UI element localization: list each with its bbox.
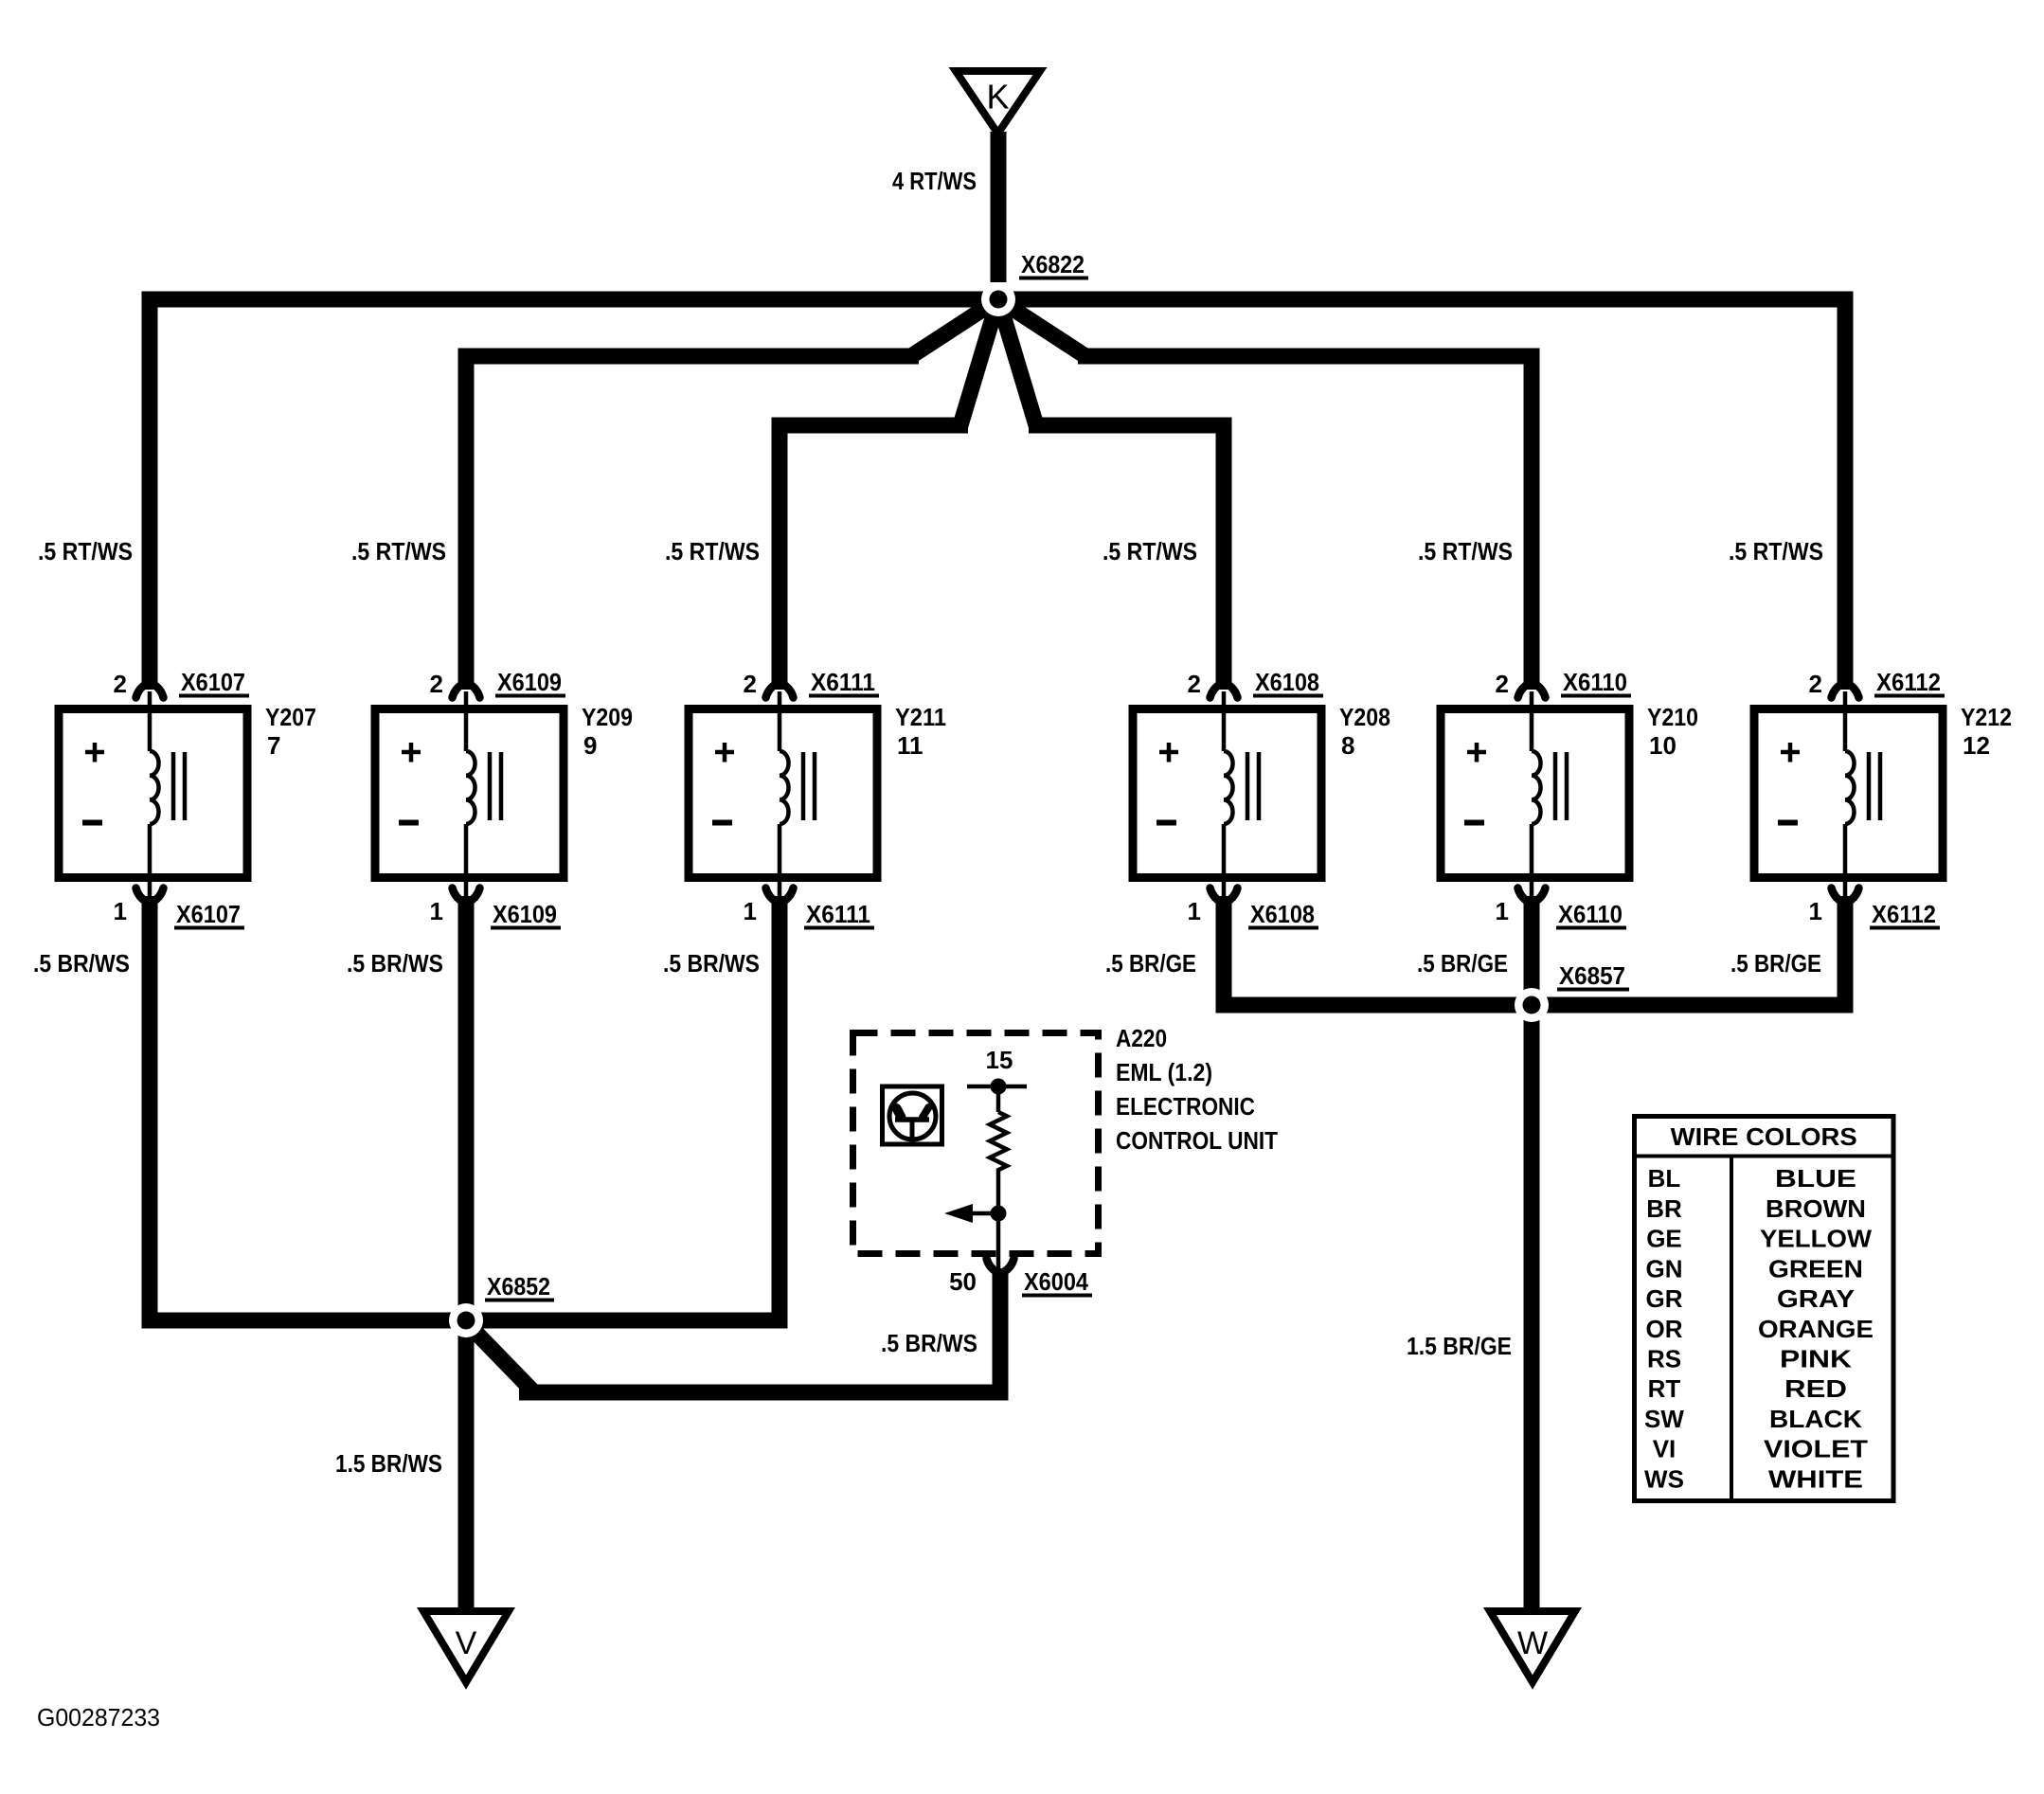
svg-text:Y208: Y208 — [1339, 703, 1390, 731]
svg-text:WS: WS — [1644, 1464, 1684, 1493]
svg-text:X6822: X6822 — [1021, 250, 1085, 278]
svg-text:VI: VI — [1653, 1435, 1676, 1463]
svg-text:.5 BR/GE: .5 BR/GE — [1417, 949, 1508, 978]
svg-text:X6107: X6107 — [176, 900, 241, 928]
svg-text:K: K — [986, 78, 1009, 117]
svg-text:WIRE COLORS: WIRE COLORS — [1671, 1122, 1857, 1151]
svg-text:GN: GN — [1646, 1254, 1683, 1283]
svg-text:X6857: X6857 — [1559, 961, 1625, 990]
svg-text:Y212: Y212 — [1961, 703, 2012, 731]
svg-text:RED: RED — [1784, 1374, 1847, 1403]
svg-text:.5 RT/WS: .5 RT/WS — [351, 537, 446, 565]
svg-text:A220: A220 — [1116, 1024, 1167, 1052]
svg-text:X6108: X6108 — [1255, 668, 1319, 696]
svg-text:X6111: X6111 — [806, 900, 870, 928]
svg-text:Y207: Y207 — [265, 703, 316, 731]
svg-text:W: W — [1517, 1625, 1548, 1661]
svg-text:BLACK: BLACK — [1769, 1405, 1862, 1433]
svg-text:X6004: X6004 — [1024, 1267, 1088, 1296]
svg-text:2: 2 — [1809, 670, 1822, 698]
svg-text:.5 BR/GE: .5 BR/GE — [1730, 949, 1821, 978]
svg-text:GE: GE — [1646, 1225, 1682, 1253]
svg-text:10: 10 — [1649, 731, 1676, 760]
svg-text:11: 11 — [897, 731, 923, 760]
svg-text:YELLOW: YELLOW — [1760, 1225, 1872, 1253]
svg-text:X6109: X6109 — [497, 668, 562, 696]
svg-text:1: 1 — [114, 897, 127, 925]
svg-text:1: 1 — [1496, 897, 1509, 925]
svg-text:Y210: Y210 — [1647, 703, 1698, 731]
svg-text:X6112: X6112 — [1876, 668, 1941, 696]
svg-text:X6110: X6110 — [1563, 668, 1627, 696]
svg-text:RT: RT — [1648, 1374, 1681, 1403]
svg-text:X6852: X6852 — [487, 1272, 550, 1301]
svg-text:X6110: X6110 — [1558, 900, 1623, 928]
svg-text:EML (1.2): EML (1.2) — [1116, 1058, 1212, 1086]
svg-text:.5 RT/WS: .5 RT/WS — [1103, 537, 1197, 565]
svg-text:.5 BR/WS: .5 BR/WS — [663, 949, 760, 978]
svg-text:1: 1 — [1188, 897, 1201, 925]
svg-text:RS: RS — [1647, 1345, 1681, 1373]
svg-text:2: 2 — [1496, 670, 1509, 698]
svg-text:X6108: X6108 — [1250, 900, 1315, 928]
svg-text:1: 1 — [1809, 897, 1822, 925]
svg-text:BROWN: BROWN — [1766, 1194, 1866, 1223]
svg-text:50: 50 — [949, 1267, 977, 1296]
svg-text:.5 BR/WS: .5 BR/WS — [881, 1329, 977, 1357]
svg-text:ELECTRONIC: ELECTRONIC — [1116, 1092, 1255, 1121]
svg-text:1: 1 — [430, 897, 443, 925]
svg-text:1: 1 — [744, 897, 757, 925]
svg-text:7: 7 — [267, 731, 280, 760]
svg-text:BL: BL — [1648, 1164, 1681, 1193]
svg-text:OR: OR — [1646, 1315, 1683, 1343]
svg-text:X6109: X6109 — [493, 900, 557, 928]
svg-text:2: 2 — [744, 670, 757, 698]
svg-text:G00287233: G00287233 — [37, 1703, 160, 1731]
svg-text:.5 RT/WS: .5 RT/WS — [38, 537, 133, 565]
svg-text:GREEN: GREEN — [1768, 1254, 1863, 1283]
svg-text:12: 12 — [1963, 731, 1990, 760]
svg-text:1.5 BR/GE: 1.5 BR/GE — [1407, 1332, 1512, 1360]
svg-text:BR: BR — [1646, 1194, 1682, 1223]
svg-text:X6107: X6107 — [181, 668, 245, 696]
svg-text:15: 15 — [986, 1046, 1013, 1074]
svg-text:GR: GR — [1646, 1284, 1683, 1313]
svg-text:CONTROL UNIT: CONTROL UNIT — [1116, 1126, 1278, 1155]
svg-text:Y211: Y211 — [895, 703, 946, 731]
svg-text:PINK: PINK — [1780, 1345, 1852, 1373]
svg-text:Y209: Y209 — [582, 703, 633, 731]
svg-text:2: 2 — [1188, 670, 1201, 698]
svg-text:.5 BR/WS: .5 BR/WS — [347, 949, 443, 978]
svg-text:BLUE: BLUE — [1775, 1164, 1856, 1193]
svg-text:GRAY: GRAY — [1777, 1284, 1855, 1313]
svg-text:WHITE: WHITE — [1768, 1464, 1863, 1493]
svg-text:.5 RT/WS: .5 RT/WS — [1729, 537, 1823, 565]
svg-text:2: 2 — [430, 670, 443, 698]
svg-text:4 RT/WS: 4 RT/WS — [892, 167, 977, 195]
svg-text:8: 8 — [1341, 731, 1354, 760]
svg-text:9: 9 — [583, 731, 597, 760]
svg-text:.5 BR/GE: .5 BR/GE — [1105, 949, 1196, 978]
svg-text:.5 RT/WS: .5 RT/WS — [1418, 537, 1513, 565]
svg-text:X6112: X6112 — [1872, 900, 1936, 928]
svg-text:.5 RT/WS: .5 RT/WS — [665, 537, 760, 565]
svg-text:SW: SW — [1644, 1405, 1684, 1433]
svg-text:ORANGE: ORANGE — [1758, 1315, 1874, 1343]
svg-text:1.5 BR/WS: 1.5 BR/WS — [335, 1449, 442, 1478]
svg-text:.5 BR/WS: .5 BR/WS — [33, 949, 130, 978]
svg-text:VIOLET: VIOLET — [1764, 1435, 1868, 1463]
svg-text:V: V — [456, 1625, 477, 1661]
svg-text:2: 2 — [114, 670, 127, 698]
svg-text:X6111: X6111 — [811, 668, 875, 696]
